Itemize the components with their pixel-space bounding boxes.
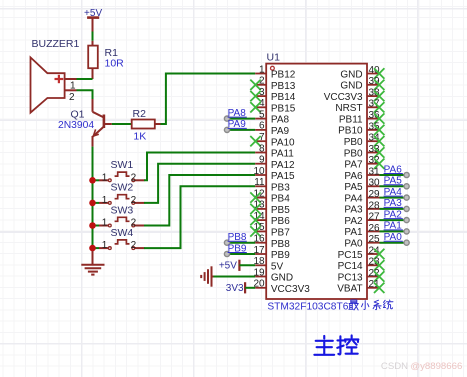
ground (switch rail) (81, 251, 104, 275)
node PB9 (228, 243, 247, 254)
svg-text:+5V: +5V (219, 261, 237, 272)
power +5V (top) (87, 18, 99, 32)
label U1 (267, 52, 281, 64)
watermark CSDN (381, 361, 462, 372)
wire buzzer pin1 to R1 (77, 78, 93, 80)
node PA5 (384, 176, 403, 187)
U1 pin 14 PB6 (250, 211, 290, 227)
svg-text:PB4: PB4 (271, 194, 290, 205)
svg-text:PB11: PB11 (339, 114, 363, 125)
U1 pin 20 VCC3V3 (253, 279, 310, 295)
resistor R2 (132, 120, 161, 129)
U1 pin 4 PB15 (250, 98, 296, 114)
U1 pin 6 PA9 (255, 121, 289, 137)
U1 pin 2 PB13 (250, 76, 296, 92)
SW1 pin number 2 (131, 172, 137, 183)
svg-text:17: 17 (253, 245, 265, 256)
buzzer BUZZER1 (31, 57, 77, 112)
U1 pin 28 PA3 (344, 200, 380, 215)
SW3 pin number 2 (131, 218, 137, 229)
svg-text:SW2: SW2 (111, 182, 134, 194)
junction SW1 rail (89, 177, 96, 184)
label SW4 (111, 227, 134, 239)
svg-text:PB6: PB6 (271, 216, 290, 227)
svg-text:R2: R2 (133, 108, 147, 120)
label +5V (top) (84, 8, 102, 19)
svg-text:VCC3V3: VCC3V3 (271, 284, 310, 295)
node PA1 (384, 221, 403, 232)
U1 pin 5 PA8 (255, 109, 289, 125)
node PB8 (228, 232, 247, 243)
svg-text:PA4: PA4 (344, 193, 363, 204)
svg-text:PB0: PB0 (344, 137, 363, 148)
U1 pin 15 PB7 (250, 222, 290, 238)
wire buzzer pin2 to Q1 collector (77, 90, 93, 99)
SW1 pin number 1 (102, 172, 108, 183)
svg-text:PA9: PA9 (271, 126, 290, 137)
U1 pin 39 GND (340, 76, 384, 91)
svg-text:PB8: PB8 (271, 239, 290, 250)
svg-text:PB15: PB15 (271, 103, 296, 114)
svg-text:PB14: PB14 (271, 92, 296, 103)
value 2N3904 (58, 120, 94, 131)
svg-text:PA12: PA12 (271, 160, 295, 171)
U1 pin 19 GND (253, 267, 293, 283)
svg-text:SW1: SW1 (111, 159, 134, 171)
U1 pin 31 PA6 (344, 166, 380, 181)
wire net PA9 to U1 pin 6 (224, 127, 255, 132)
U1 pin 29 PA4 (344, 189, 380, 204)
svg-text:27: 27 (369, 212, 381, 223)
wire SW1 to U1 pin 8 PA11 (144, 153, 255, 181)
U1 pin 37 NRST (335, 99, 384, 114)
svg-text:PA1: PA1 (344, 227, 363, 238)
svg-text:U1: U1 (267, 52, 281, 64)
svg-text:19: 19 (253, 267, 265, 278)
svg-text:6: 6 (259, 121, 265, 132)
svg-text:PA8: PA8 (271, 115, 290, 126)
svg-text:PA15: PA15 (271, 171, 295, 182)
label SW1 (111, 159, 134, 171)
svg-text:1: 1 (259, 64, 265, 75)
svg-text:PC13: PC13 (338, 272, 363, 283)
U1 pin 24 PC15 (338, 245, 385, 260)
svg-text:PB10: PB10 (338, 126, 363, 137)
svg-text:GND: GND (271, 273, 293, 284)
label 3V3 (226, 283, 244, 294)
svg-text:PB13: PB13 (271, 81, 296, 92)
U1 pin 12 PB4 (250, 188, 290, 204)
svg-text:PB7: PB7 (271, 228, 290, 239)
power +5V (pin 18) (239, 260, 255, 271)
wire +5V to R1 (92, 32, 94, 41)
U1 pin 30 PA5 (344, 178, 380, 193)
U1 pin 11 PB3 (254, 177, 290, 193)
label BUZZER1 (32, 38, 80, 50)
svg-text:20: 20 (253, 279, 265, 290)
node PA9 (228, 119, 247, 130)
label R1 (105, 47, 119, 59)
svg-text:PB12: PB12 (271, 70, 296, 81)
U1 pin 35 PB10 (338, 121, 384, 136)
SW4 pin number 1 (102, 240, 108, 251)
svg-text:CSDN: CSDN (381, 361, 408, 372)
svg-text:25: 25 (369, 234, 381, 245)
svg-text:2: 2 (69, 92, 75, 103)
power 3V3 (pin 20) (245, 282, 255, 293)
wire net PA2 to U1 pin 27 (380, 218, 410, 223)
label +5V (pin 18) (219, 261, 237, 272)
svg-text:SW4: SW4 (111, 227, 134, 239)
U1 pin 8 PA11 (255, 143, 294, 159)
svg-text:PC14: PC14 (338, 261, 363, 272)
U1 pin 38 VCC3V3 (324, 88, 385, 103)
svg-text:11: 11 (254, 177, 265, 188)
U1 pin 33 PB0 (344, 144, 385, 159)
switch SW4 (93, 240, 145, 250)
junction SW4 rail (89, 245, 96, 252)
svg-text:1: 1 (102, 240, 108, 251)
svg-text:PB3: PB3 (271, 182, 290, 193)
U1 pin 1 PB12 (255, 64, 296, 80)
wire net PA3 to U1 pin 28 (380, 206, 410, 211)
svg-text:PB0: PB0 (344, 148, 363, 159)
svg-text:8: 8 (259, 143, 265, 154)
wire Q1 base to R2 (112, 123, 132, 125)
svg-text:5V: 5V (271, 261, 284, 272)
wire net PB9 to U1 pin 17 (224, 251, 255, 256)
svg-text:5: 5 (259, 109, 265, 120)
SW3 pin number 1 (102, 218, 108, 229)
svg-text:10: 10 (253, 166, 265, 177)
svg-text:PB9: PB9 (271, 250, 290, 261)
svg-text:29: 29 (369, 189, 381, 200)
U1 pin 18 5V (253, 256, 283, 272)
U1 pin 3 PB14 (250, 87, 296, 103)
SW4 pin number 2 (131, 240, 137, 251)
svg-text:1K: 1K (133, 131, 146, 143)
node PA4 (384, 187, 403, 198)
wire net PA6 to U1 pin 31 (380, 172, 410, 177)
wire SW2 to U1 pin 9 PA12 (144, 164, 255, 203)
wire net PA0 to U1 pin 25 (380, 240, 410, 245)
svg-text:VCC3V3: VCC3V3 (324, 92, 363, 103)
wire Q1 emitter to switch rail (92, 147, 94, 181)
U1 pin 36 PB11 (339, 110, 385, 125)
svg-text:PA0: PA0 (344, 239, 363, 250)
svg-text:1: 1 (70, 81, 76, 92)
svg-text:PB5: PB5 (271, 205, 290, 216)
buzzer pin number 1 (70, 81, 76, 92)
U1 pin 34 PB0 (344, 133, 385, 148)
label SW3 (111, 204, 134, 216)
svg-text:Q1: Q1 (71, 108, 85, 120)
U1 pin 9 PA12 (255, 155, 295, 171)
U1 pin 16 PB8 (253, 234, 290, 250)
svg-text:GND: GND (340, 81, 362, 92)
svg-text:SW3: SW3 (111, 204, 134, 216)
svg-text:PA11: PA11 (271, 149, 294, 160)
buzzer pin number 2 (69, 92, 75, 103)
svg-text:26: 26 (369, 223, 381, 234)
label SW2 (111, 182, 134, 194)
value 10R (105, 58, 125, 70)
label STM32F103C8T6 minimal system title (267, 300, 393, 312)
svg-text:VBAT: VBAT (337, 284, 362, 295)
svg-text:PC15: PC15 (338, 250, 363, 261)
svg-text:16: 16 (253, 234, 265, 245)
SW2 pin number 1 (102, 195, 108, 206)
node PA8 (228, 108, 247, 119)
IC U1 (STM32F103C8T6 minimal system MCU) (266, 64, 367, 299)
wire net PA8 to U1 pin 5 (224, 116, 255, 121)
svg-text:30: 30 (369, 178, 381, 189)
svg-text:PA2: PA2 (344, 216, 363, 227)
svg-text:GND: GND (340, 69, 362, 80)
wire SW3 to U1 pin 10 PA15 (144, 175, 255, 226)
wire net PA1 to U1 pin 26 (380, 229, 410, 234)
label main-controller title (zhu kong) (314, 335, 358, 354)
U1 pin 26 PA1 (344, 223, 380, 238)
junction SW3 rail (89, 222, 96, 229)
svg-text:1: 1 (102, 172, 108, 183)
svg-text:PA6: PA6 (344, 171, 363, 182)
wire net PA5 to U1 pin 30 (380, 184, 410, 189)
svg-text:PA3: PA3 (344, 205, 363, 216)
ground (pin 19) (201, 266, 255, 286)
svg-text:@y8898666: @y8898666 (410, 361, 462, 372)
node PA6 (384, 164, 403, 175)
U1 pin 32 PA7 (344, 155, 384, 170)
svg-text:3V3: 3V3 (226, 283, 244, 294)
U1 pin 13 PB5 (250, 200, 290, 216)
transistor Q1 (93, 99, 112, 147)
U1 pin 23 PC14 (338, 257, 385, 272)
U1 pin 17 PB9 (253, 245, 290, 261)
node PA3 (384, 198, 403, 209)
junction SW2 rail (89, 200, 96, 207)
svg-text:+5V: +5V (84, 8, 102, 19)
svg-text:NRST: NRST (335, 103, 362, 114)
U1 pin 25 PA0 (344, 234, 380, 249)
node PA2 (384, 209, 403, 220)
resistor R1 (88, 41, 98, 79)
switch SW3 (93, 217, 145, 227)
wire net PA4 to U1 pin 29 (380, 195, 410, 200)
label R2 (133, 108, 147, 120)
label Q1 (71, 108, 85, 120)
svg-text:BUZZER1: BUZZER1 (32, 38, 80, 50)
svg-text:9: 9 (259, 155, 265, 166)
switch SW2 (93, 195, 145, 205)
svg-text:PA10: PA10 (271, 137, 295, 148)
svg-text:PA7: PA7 (344, 160, 363, 171)
svg-text:2N3904: 2N3904 (58, 120, 94, 131)
U1 pin 10 PA15 (253, 166, 295, 182)
svg-text:1: 1 (102, 195, 108, 206)
SW2 pin number 2 (131, 195, 137, 206)
svg-text:31: 31 (369, 166, 381, 177)
svg-text:28: 28 (369, 200, 381, 211)
svg-text:1: 1 (102, 218, 108, 229)
U1 pin 22 PC13 (338, 268, 385, 283)
U1 pin 21 VBAT (337, 279, 384, 294)
U1 pin 40 GND (340, 65, 384, 80)
svg-text:STM32F103C8T6: STM32F103C8T6 (267, 302, 348, 313)
svg-text:10R: 10R (105, 58, 125, 70)
U1 pin 27 PA2 (344, 212, 380, 227)
switch SW1 (93, 172, 145, 182)
wire switch rail (92, 180, 94, 251)
svg-text:PA5: PA5 (344, 182, 363, 193)
U1 pin 7 PA10 (250, 132, 295, 148)
node PA0 (384, 232, 403, 243)
value 1K (133, 131, 146, 143)
svg-text:18: 18 (253, 256, 265, 267)
wire R2 to U1 pin 1 PB12 (161, 74, 256, 125)
wire SW4 to U1 pin 11 PB3 (144, 186, 255, 248)
svg-text:2: 2 (131, 240, 137, 251)
wire net PB8 to U1 pin 16 (224, 240, 255, 245)
